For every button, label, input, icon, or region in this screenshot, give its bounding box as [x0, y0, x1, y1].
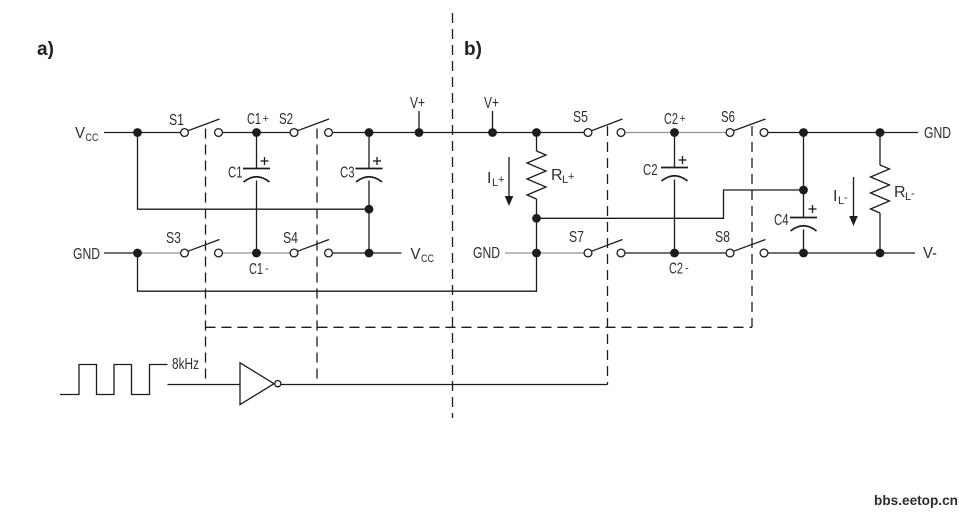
junction C4 branch top node [799, 128, 808, 137]
dashed horizontal link [206, 326, 753, 328]
capacitor C1 [228, 133, 270, 254]
node C2+ label [664, 111, 686, 128]
svg-text:C1: C1 [249, 261, 263, 278]
wire top rail S1 to S2 [222, 132, 290, 134]
node V+ (right) [484, 95, 499, 133]
switch S2 [279, 111, 332, 136]
svg-text:C2: C2 [664, 111, 678, 128]
junction node C2+ [670, 128, 679, 137]
dashed phase line 3 [607, 126, 609, 385]
junction GND node bottom rail [133, 249, 142, 258]
wire bottom rail GND to S7 (gray) [505, 252, 584, 254]
svg-text:I: I [833, 188, 837, 205]
junction VCC node top rail [133, 128, 142, 137]
svg-text:S8: S8 [715, 229, 730, 246]
svg-text:C1: C1 [228, 165, 243, 182]
svg-text:S2: S2 [279, 111, 293, 128]
wire clock input [168, 384, 241, 386]
svg-text:GND: GND [924, 125, 951, 142]
junction RL- top node [876, 128, 885, 137]
svg-text:I: I [487, 170, 491, 187]
svg-text:bbs.eetop.cn: bbs.eetop.cn [874, 492, 958, 508]
inverter U1 [240, 363, 281, 405]
wire bottom rail S7 to S8 [625, 252, 726, 254]
junction node C1- [252, 249, 261, 258]
svg-text:R: R [894, 184, 906, 201]
capacitor C2 [643, 133, 688, 254]
wire bottom rail S4 to VCC [333, 252, 402, 254]
svg-text:C4: C4 [774, 212, 789, 229]
dashed divider a/b [452, 13, 454, 418]
junction RL+ top node [532, 128, 541, 137]
switch S4 [283, 230, 332, 257]
svg-text:CC: CC [86, 132, 99, 144]
svg-text:-: - [685, 263, 689, 275]
svg-text:S3: S3 [166, 230, 181, 247]
resistor RL+ [527, 133, 574, 219]
wire step from RL+ bottom to C4 node [537, 190, 804, 218]
junction dot mid node C3 [365, 205, 374, 214]
junction GND node right circuit [532, 249, 541, 258]
junction dot RL+ bottom [532, 214, 541, 223]
switch S8 [715, 229, 768, 257]
svg-text:S1: S1 [169, 112, 184, 129]
wire top rail S5 to S6 (gray) [625, 132, 726, 134]
wire GND link left [138, 253, 537, 291]
wire bottom rail S3 to S4 (gray) [222, 252, 290, 254]
svg-text:C2: C2 [669, 261, 683, 278]
switch S7 [569, 229, 625, 257]
svg-text:+: + [568, 171, 574, 183]
wire bottom rail node to S3 (gray) [138, 252, 181, 254]
current arrow IL+ [487, 157, 513, 206]
switch S5 [573, 109, 625, 136]
svg-text:C3: C3 [340, 165, 355, 182]
junction node C1+ [252, 128, 261, 137]
dashed phase line 1 [205, 129, 207, 385]
svg-text:C2: C2 [643, 162, 658, 179]
svg-text:R: R [551, 167, 563, 184]
svg-text:a): a) [37, 39, 54, 60]
svg-text:S7: S7 [569, 229, 584, 246]
svg-text:V: V [411, 246, 421, 263]
wire bottom rail S8 to V- [768, 252, 915, 254]
node C2- label [669, 261, 689, 278]
wire top rail S2 to S5 [333, 132, 584, 134]
svg-text:8kHz: 8kHz [172, 356, 199, 373]
switch S6 [721, 109, 768, 136]
junction C3 bottom node [365, 249, 374, 258]
junction node V+ left [415, 128, 424, 137]
svg-text:b): b) [464, 39, 482, 60]
switch S3 [166, 230, 222, 257]
junction C3 top node [365, 128, 374, 137]
junction dot C4 top node [799, 186, 808, 195]
svg-text:S5: S5 [573, 109, 588, 126]
node C1+ label [247, 111, 269, 128]
svg-text:V: V [75, 125, 85, 142]
resistor RL- [871, 133, 916, 254]
dashed phase line 2 [316, 129, 318, 385]
svg-text:S4: S4 [283, 230, 298, 247]
svg-text:-: - [911, 188, 915, 200]
svg-text:-: - [844, 192, 848, 204]
svg-text:V+: V+ [484, 95, 499, 112]
capacitor C4 [774, 190, 817, 253]
svg-text:-: - [265, 263, 269, 275]
svg-text:+: + [263, 113, 269, 125]
junction RL- bottom node [876, 249, 885, 258]
junction node V+ right [488, 128, 497, 137]
node V+ (left) [410, 95, 425, 133]
wire bottom rail GND to node [104, 252, 138, 254]
svg-text:+: + [680, 113, 686, 125]
wire top rail VCC to S1 [104, 132, 181, 134]
svg-text:GND: GND [73, 246, 100, 263]
switch S1 [169, 112, 222, 136]
wire inverter output [281, 384, 608, 386]
junction node C2- [670, 249, 679, 258]
capacitor C3 [340, 133, 383, 254]
wire C4 upper stem [803, 133, 805, 191]
svg-text:GND: GND [473, 245, 500, 262]
node C1- label [249, 261, 269, 278]
current arrow IL- [833, 177, 858, 226]
svg-text:CC: CC [421, 253, 434, 265]
svg-text:+: + [498, 174, 504, 186]
dashed phase line 4 [751, 126, 753, 327]
svg-text:V-: V- [923, 245, 937, 262]
wire top rail S6 to GND [768, 132, 918, 134]
wire RL+ bottom to GND rail [536, 218, 538, 253]
clock square wave [60, 365, 168, 395]
junction C4 bottom node [799, 249, 808, 258]
wire left vertical VCC node down [138, 133, 370, 210]
svg-text:V+: V+ [410, 95, 425, 112]
svg-text:S6: S6 [721, 109, 735, 126]
svg-text:C1: C1 [247, 111, 261, 128]
